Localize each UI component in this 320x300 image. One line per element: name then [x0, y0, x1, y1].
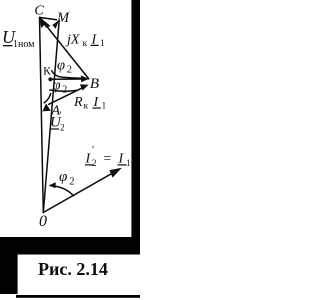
- arrowhead at C (end of U1nom and BC): [39, 17, 50, 28]
- right page-edge black strip: [131, 0, 140, 254]
- svg-text:1ном: 1ном: [13, 39, 35, 50]
- svg-text:=: =: [104, 151, 112, 166]
- svg-text:Рис. 2.14: Рис. 2.14: [38, 259, 108, 279]
- svg-text:R: R: [73, 95, 83, 110]
- svg-text:2: 2: [69, 177, 74, 188]
- small arc at A (rotation mark): [44, 94, 51, 103]
- arrowhead of A rotation arc (up): [42, 104, 51, 112]
- svg-text:jX: jX: [65, 33, 80, 48]
- svg-text:φ: φ: [57, 58, 65, 74]
- line O to M through A (U'2 direction): [43, 20, 59, 212]
- arrowhead of origin phi2 arc (pointing left): [49, 182, 56, 188]
- svg-text:2: 2: [67, 65, 72, 76]
- label U'2: [50, 110, 65, 133]
- angle arc phi2 upper (at K between KM and KB): [52, 71, 83, 79]
- arrowhead of current vector I: [109, 168, 122, 178]
- svg-text:1: 1: [102, 102, 107, 112]
- label U1nom: [2, 27, 35, 50]
- angle arc phi2 at origin: [50, 186, 73, 196]
- arrowhead at B (end of AB): [80, 84, 89, 90]
- svg-text:2: 2: [62, 85, 67, 96]
- svg-text:к: к: [83, 39, 88, 49]
- point K dot: [48, 77, 52, 81]
- label Rk I1: [73, 95, 107, 112]
- svg-text:′: ′: [60, 110, 62, 122]
- svg-text:1: 1: [126, 158, 131, 168]
- label phi2 lower: [53, 78, 68, 96]
- svg-text:φ: φ: [59, 169, 67, 185]
- vector U1nom line O to C: [40, 17, 44, 212]
- svg-text:В: В: [90, 76, 99, 92]
- left black column of caption box: [0, 237, 18, 294]
- caption box bottom line: [16, 295, 140, 298]
- segment C to M (arc chord): [40, 18, 56, 20]
- svg-text:0: 0: [39, 213, 47, 230]
- svg-text:2: 2: [92, 158, 97, 168]
- segment A to B (Rk I1): [49, 87, 85, 105]
- current vector O to I1 tip: [43, 170, 118, 213]
- label I'2 = I1: [85, 144, 131, 168]
- horizontal segment K to B: [50, 78, 85, 80]
- label phi2 origin: [59, 169, 75, 188]
- arrowhead at M (end of O-M line): [52, 20, 59, 29]
- arrowhead at B horizontal (KB): [81, 76, 89, 83]
- svg-text:φ: φ: [53, 78, 61, 94]
- label jXk I1: [65, 33, 105, 50]
- svg-text:К: К: [43, 65, 51, 77]
- bottom black band: [0, 237, 140, 255]
- label phi2 upper: [57, 58, 72, 76]
- svg-text:1: 1: [100, 39, 105, 49]
- svg-text:C: C: [34, 4, 44, 19]
- segment B to C (jXk I1): [41, 19, 89, 79]
- angle arc phi2 lower (at A): [50, 90, 78, 91]
- svg-text:к: к: [84, 101, 89, 111]
- svg-text:2: 2: [60, 123, 65, 133]
- svg-text:M: M: [56, 10, 70, 26]
- svg-text:′: ′: [92, 144, 94, 156]
